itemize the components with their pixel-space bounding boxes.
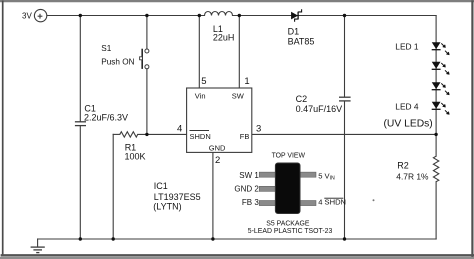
svg-text:GND 2: GND 2 bbox=[234, 185, 259, 194]
package pin 5 VIN bbox=[300, 172, 316, 177]
svg-text:BAT85: BAT85 bbox=[288, 37, 315, 47]
node FB LED bbox=[434, 133, 437, 136]
LED 4 bbox=[432, 102, 450, 114]
node GND bottom bbox=[211, 237, 214, 240]
wire R1 ground vertical bbox=[112, 134, 114, 239]
battery 3V source bbox=[22, 9, 47, 21]
inductor L1 bbox=[205, 12, 233, 16]
capacitor C2 bbox=[339, 97, 351, 101]
svg-text:1: 1 bbox=[244, 76, 249, 87]
wire bottom rail bbox=[38, 238, 437, 240]
diode D1 bbox=[288, 9, 315, 47]
border bottom shadow bbox=[0, 257, 474, 259]
LED 2 bbox=[432, 62, 450, 74]
svg-text:D1: D1 bbox=[288, 27, 300, 37]
svg-text:IC1: IC1 bbox=[154, 181, 168, 191]
wire S1 lower bbox=[146, 69, 148, 134]
svg-text:3: 3 bbox=[256, 123, 261, 134]
package body bbox=[275, 163, 300, 214]
package pin GND 2 bbox=[259, 186, 275, 191]
wire C2 branch lower bbox=[344, 101, 346, 239]
svg-text:4 SHDN: 4 SHDN bbox=[318, 198, 346, 207]
border bottom bbox=[2, 254, 474, 256]
svg-text:R2: R2 bbox=[397, 160, 409, 170]
svg-text:C2: C2 bbox=[296, 94, 308, 104]
wire top rail left bbox=[47, 15, 205, 17]
svg-text:LED 1: LED 1 bbox=[395, 42, 419, 52]
svg-text:22uH: 22uH bbox=[213, 33, 235, 43]
wire Vin pin 5 stub bbox=[198, 16, 200, 89]
ground bbox=[31, 247, 45, 253]
svg-text:5: 5 bbox=[201, 76, 206, 87]
svg-text:FB 3: FB 3 bbox=[242, 198, 259, 207]
node R1 bottom bbox=[112, 237, 115, 240]
node SW top bbox=[238, 14, 241, 17]
svg-text:Push ON: Push ON bbox=[101, 57, 134, 66]
package pin SW 1 bbox=[259, 172, 275, 177]
border left bbox=[2, 2, 4, 256]
svg-text:(LYTN): (LYTN) bbox=[153, 202, 181, 212]
svg-text:LT1937ES5: LT1937ES5 bbox=[154, 192, 201, 202]
package U1 top view bbox=[234, 153, 346, 235]
wire top rail right bbox=[233, 15, 437, 17]
wire GND pin 2 stub bbox=[212, 152, 214, 239]
svg-text:SW 1: SW 1 bbox=[239, 171, 259, 180]
LED D2 string bbox=[432, 43, 450, 115]
package pin FB 3 bbox=[259, 201, 275, 206]
node Vin top bbox=[198, 14, 201, 17]
svg-text:Vin: Vin bbox=[195, 92, 206, 101]
node C1 bottom bbox=[79, 237, 82, 240]
svg-text:2: 2 bbox=[215, 155, 220, 166]
svg-text:(UV LEDs): (UV LEDs) bbox=[384, 118, 433, 129]
svg-text:S5 PACKAGE: S5 PACKAGE bbox=[266, 220, 310, 227]
capacitor C1 bbox=[75, 122, 86, 126]
node S1 top bbox=[145, 14, 148, 17]
node SHDN bbox=[145, 133, 148, 136]
border top bbox=[0, 0, 474, 2]
wire C2 branch upper bbox=[344, 16, 346, 97]
node C2 top bbox=[343, 14, 346, 17]
LED 3 bbox=[432, 83, 450, 95]
svg-text:4.7R 1%: 4.7R 1% bbox=[396, 172, 429, 182]
svg-text:TOP VIEW: TOP VIEW bbox=[272, 153, 306, 160]
svg-text:SW: SW bbox=[232, 92, 245, 101]
svg-text:2.2uF/6.3V: 2.2uF/6.3V bbox=[84, 112, 128, 122]
wire FB pin 3 bbox=[252, 133, 436, 135]
border right bbox=[471, 2, 473, 257]
svg-text:5-LEAD PLASTIC TSOT-23: 5-LEAD PLASTIC TSOT-23 bbox=[248, 228, 333, 235]
node C2 bottom bbox=[343, 237, 346, 240]
node C1 top bbox=[79, 14, 82, 17]
svg-text:0.47uF/16V: 0.47uF/16V bbox=[296, 104, 343, 114]
resistor R1 bbox=[120, 132, 138, 137]
svg-text:S1: S1 bbox=[101, 44, 111, 53]
package pin 4 SHDN bbox=[300, 201, 316, 206]
wire LED string vertical bbox=[435, 16, 437, 157]
svg-text:LED 4: LED 4 bbox=[395, 101, 419, 111]
wire C1 branch lower bbox=[79, 126, 81, 239]
wire R1 right to pin 4 bbox=[138, 133, 187, 135]
svg-text:GND: GND bbox=[209, 144, 226, 153]
svg-text:FB: FB bbox=[240, 132, 250, 141]
svg-text:4: 4 bbox=[177, 123, 182, 134]
resistor R2 bbox=[433, 156, 438, 182]
wire R1 left lead bbox=[113, 133, 120, 135]
svg-text:SHDN: SHDN bbox=[190, 132, 211, 141]
svg-text:3V: 3V bbox=[22, 12, 32, 21]
wire S1 upper bbox=[146, 16, 148, 49]
wire SW pin 1 stub bbox=[238, 16, 240, 89]
wire C1 branch upper bbox=[79, 16, 81, 122]
wire ground stub bbox=[37, 239, 39, 247]
switch S1 bbox=[101, 44, 149, 69]
stray mark bbox=[373, 199, 375, 201]
wire R2 to bottom rail bbox=[435, 182, 437, 239]
IC U1 box bbox=[187, 88, 252, 152]
svg-text:100K: 100K bbox=[125, 152, 146, 162]
LED 1 bbox=[432, 43, 450, 55]
